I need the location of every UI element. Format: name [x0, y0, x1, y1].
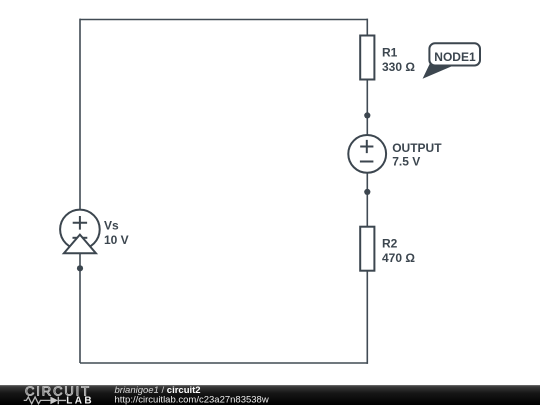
wire left lower segment [79, 250, 81, 363]
ground symbol [64, 235, 96, 254]
junction dot below ground [77, 265, 83, 271]
resistor R1 [360, 36, 374, 80]
wire bottom rail [80, 362, 367, 364]
junction dot above OUTPUT [364, 112, 370, 118]
wire right bottom segment [366, 270, 368, 364]
footer bar [0, 385, 540, 405]
wire left upper segment [79, 19, 81, 210]
svg-text:330 Ω: 330 Ω [382, 60, 415, 74]
svg-text:R1: R1 [382, 46, 398, 60]
wire right segment OUTPUT to R2 [366, 172, 368, 227]
voltmeter OUTPUT body [348, 135, 386, 173]
svg-text:7.5 V: 7.5 V [392, 155, 420, 169]
resistor R2 [360, 227, 374, 271]
svg-text:470 Ω: 470 Ω [382, 251, 415, 265]
svg-text:http://circuitlab.com/c23a27n8: http://circuitlab.com/c23a27n83538w [115, 395, 269, 405]
node NODE1 flag bubble [429, 43, 480, 65]
svg-text:NODE1: NODE1 [434, 50, 476, 64]
wire right segment R1 to OUTPUT [366, 79, 368, 136]
junction dot below OUTPUT [364, 189, 370, 195]
voltage source Vs plus sign [73, 216, 87, 230]
svg-text:OUTPUT: OUTPUT [392, 141, 442, 155]
svg-text:Vs: Vs [104, 218, 119, 232]
svg-text:LAB: LAB [66, 396, 94, 405]
voltage source Vs body [60, 210, 100, 250]
wire top rail [80, 19, 367, 21]
node NODE1 flag tail [424, 63, 453, 78]
logo resistor zigzag [24, 397, 51, 404]
voltmeter OUTPUT minus sign [360, 161, 374, 163]
voltage source Vs minus sign [73, 237, 88, 239]
voltmeter OUTPUT plus sign [360, 140, 373, 153]
logo diode triangle [50, 397, 58, 405]
wire right top segment [366, 19, 368, 36]
svg-text:10 V: 10 V [104, 233, 129, 247]
svg-text:R2: R2 [382, 237, 398, 251]
logo diode bar and wire [58, 397, 66, 405]
